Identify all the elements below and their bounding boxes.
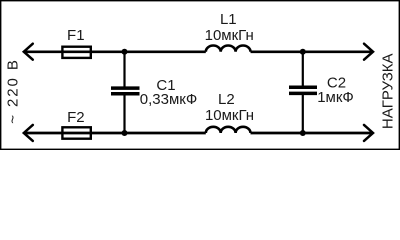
node junction top of C2 — [300, 49, 306, 55]
label C1 — [156, 77, 175, 94]
value label 10mkGn top — [205, 27, 254, 44]
wire bottom rail right segment — [251, 132, 373, 135]
svg-text:L2: L2 — [218, 91, 235, 108]
label C2 — [327, 75, 346, 92]
wire C2 branch lower — [302, 95, 304, 133]
inductor L1 — [206, 45, 251, 51]
svg-text:1мкФ: 1мкФ — [317, 89, 354, 106]
wire C1 branch lower — [123, 95, 125, 133]
wire C2 branch upper — [302, 52, 304, 86]
inductor L2 — [206, 127, 251, 133]
arrow output terminal bottom — [364, 125, 373, 141]
svg-text:НАГРУЗКА: НАГРУЗКА — [380, 53, 397, 129]
label F2 — [67, 109, 85, 126]
svg-text:10мкГн: 10мкГн — [205, 27, 254, 44]
node junction bottom of C2 — [300, 130, 306, 136]
label ~220V mains (rotated) — [4, 58, 21, 123]
arrow input terminal bottom — [24, 125, 33, 141]
node junction bottom of C1 — [122, 130, 128, 136]
capacitor C1 — [111, 88, 140, 94]
svg-text:~ 220 В: ~ 220 В — [4, 58, 21, 123]
svg-text:F1: F1 — [67, 27, 85, 44]
svg-text:F2: F2 — [67, 109, 85, 126]
capacitor C2 — [289, 87, 317, 93]
wire bottom rail left segment — [24, 132, 206, 135]
value label 10mkGn bottom — [205, 107, 254, 124]
arrow input terminal top — [24, 44, 33, 60]
svg-text:L1: L1 — [220, 11, 237, 28]
svg-text:0,33мкФ: 0,33мкФ — [140, 91, 197, 108]
svg-text:10мкГн: 10мкГн — [205, 107, 254, 124]
label L1 — [220, 11, 237, 28]
value label 1mkF — [317, 89, 354, 106]
wire C1 branch upper — [123, 52, 125, 87]
label L2 — [218, 91, 235, 108]
wire top rail right segment — [251, 50, 373, 53]
node junction top of C1 — [122, 49, 128, 55]
fuse F1 — [62, 47, 90, 58]
fuse F2 — [62, 127, 90, 138]
label NAGRUZKA load (rotated) — [380, 53, 397, 129]
label F1 — [67, 27, 85, 44]
value label 0,33mkF — [140, 91, 197, 108]
arrow output terminal top — [364, 44, 373, 60]
wire top rail left segment — [24, 50, 206, 53]
